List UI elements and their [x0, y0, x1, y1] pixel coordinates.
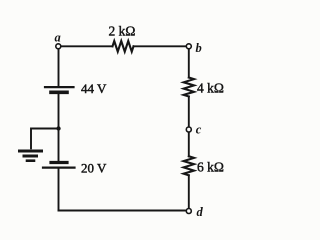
- svg-text:b: b: [196, 41, 202, 55]
- svg-text:6 kΩ: 6 kΩ: [197, 159, 224, 174]
- svg-text:4 kΩ: 4 kΩ: [197, 80, 224, 95]
- svg-text:20 V: 20 V: [81, 160, 107, 175]
- svg-text:44 V: 44 V: [81, 81, 107, 96]
- svg-text:a: a: [55, 30, 61, 44]
- svg-text:2 kΩ: 2 kΩ: [109, 24, 136, 39]
- svg-text:d: d: [197, 205, 204, 219]
- svg-text:c: c: [196, 122, 202, 136]
